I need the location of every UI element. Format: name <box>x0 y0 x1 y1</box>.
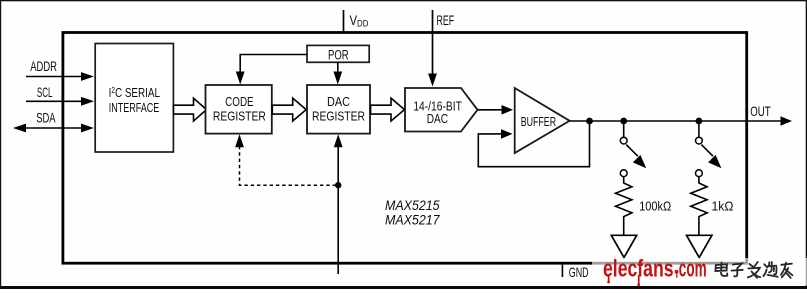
switch 2 top contact <box>696 137 703 144</box>
ground R2 <box>687 235 712 257</box>
ground R1 <box>611 235 636 257</box>
svg-text:BUFFER: BUFFER <box>521 114 556 129</box>
wire POR to DAC register <box>337 62 339 73</box>
svg-text:SDA: SDA <box>36 109 56 125</box>
block DAC register <box>307 85 370 134</box>
arrowhead into buffer minus input <box>501 129 513 139</box>
svg-text:GND: GND <box>569 264 589 280</box>
wire buffer output to OUT <box>570 120 781 122</box>
svg-text:REF: REF <box>437 12 455 28</box>
wire SDA bidirectional <box>22 127 84 129</box>
svg-text:MAX5217: MAX5217 <box>385 212 440 227</box>
svg-text:ADDR: ADDR <box>30 58 57 74</box>
svg-text:com: com <box>679 256 707 283</box>
wire DAC register bottom pin <box>337 145 339 274</box>
feedback wire <box>478 121 589 167</box>
wire DAC to buffer <box>478 109 505 111</box>
watermark elecfans.com <box>603 256 707 287</box>
feedback node dot <box>586 118 593 125</box>
arrowhead SCL <box>81 97 94 106</box>
wire POR to CODE register <box>240 55 307 74</box>
dashed wire to CODE register bottom <box>240 146 336 185</box>
junction dot on register load line <box>335 182 341 188</box>
open arrow CODE to DAC register <box>272 98 306 121</box>
switch 1 blade arrowhead <box>633 155 646 168</box>
switch 1 top contact <box>620 137 627 144</box>
switch 2 blade arrowhead <box>708 155 721 168</box>
wire VDD tick <box>343 10 345 32</box>
switch 2 bottom contact <box>696 170 703 177</box>
svg-text:REGISTER: REGISTER <box>213 108 266 123</box>
page bottom bar <box>0 286 807 289</box>
switch 1 bottom contact <box>620 170 627 177</box>
svg-text:DAC: DAC <box>427 111 448 126</box>
wire to switch 2 <box>698 121 700 137</box>
glyph fa <box>748 262 761 278</box>
block 14/16-bit DAC pentagon <box>405 88 478 132</box>
chip outline <box>63 33 747 264</box>
watermark chinese 电子发烧友 <box>715 262 792 278</box>
arrowhead SDA left <box>13 124 26 133</box>
watermark overlay <box>592 258 807 286</box>
svg-text:100kΩ: 100kΩ <box>639 199 671 213</box>
wire REF vertical <box>432 10 434 76</box>
node dot switch 1 <box>620 118 627 125</box>
wire ADDR <box>26 76 84 78</box>
resistor R1 100k <box>616 177 632 236</box>
svg-text:SCL: SCL <box>37 84 53 100</box>
arrowhead into buffer plus input <box>502 105 514 115</box>
svg-text:1kΩ: 1kΩ <box>712 199 734 213</box>
glyph zi <box>732 264 743 277</box>
block POR <box>307 45 369 62</box>
wire to switch 1 <box>623 121 625 137</box>
switch 2 blade <box>701 145 713 157</box>
svg-text:DAC: DAC <box>327 94 350 109</box>
arrowhead POR to CODE <box>236 72 245 85</box>
svg-text:DD: DD <box>357 19 369 30</box>
svg-text:CODE: CODE <box>225 94 254 109</box>
svg-text:I2C SERIAL: I2C SERIAL <box>109 85 160 100</box>
svg-text:REGISTER: REGISTER <box>312 108 365 123</box>
svg-text:POR: POR <box>328 48 349 63</box>
glyph shao <box>764 262 778 277</box>
svg-text:INTERFACE: INTERFACE <box>109 100 160 115</box>
glyph you <box>781 263 793 278</box>
wire SCL <box>26 100 84 102</box>
page top border <box>0 0 807 1</box>
open arrow DAC register to DAC <box>371 98 405 121</box>
svg-text:MAX5215: MAX5215 <box>385 198 440 213</box>
open arrow I2C to CODE <box>174 98 207 121</box>
page left border <box>0 0 1 289</box>
arrowhead ADDR <box>81 72 94 81</box>
block I2C serial interface <box>95 44 173 153</box>
arrowhead POR to DAC register <box>333 72 342 85</box>
arrowhead into CODE register bottom <box>235 134 244 147</box>
wire GND tick <box>561 263 563 277</box>
resistor R2 1k <box>691 177 707 236</box>
svg-text:OUT: OUT <box>750 103 771 119</box>
node dot switch 2 <box>696 118 703 125</box>
switch 1 blade <box>626 145 638 157</box>
arrowhead OUT <box>781 116 793 126</box>
arrowhead into DAC register bottom <box>334 134 343 147</box>
glyph dian <box>715 263 727 277</box>
arrowhead SDA right <box>81 124 94 133</box>
block CODE register <box>206 85 272 134</box>
page right border <box>806 0 807 289</box>
arrowhead REF into DAC <box>428 74 437 87</box>
op-amp buffer <box>515 88 570 153</box>
